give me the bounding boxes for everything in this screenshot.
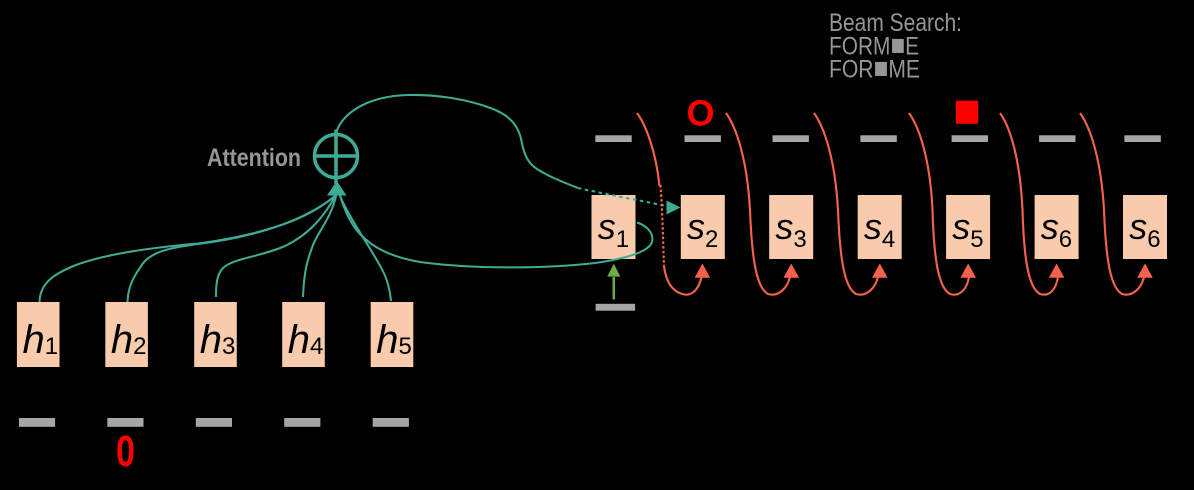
red loop 1 dotted middle — [661, 186, 665, 266]
op symbol: attention circle-plus — [315, 130, 358, 185]
dash under s1 — [596, 304, 636, 311]
svg-text:Attention: Attention — [207, 144, 301, 172]
svg-text:0: 0 — [116, 427, 135, 476]
box h3 — [194, 302, 237, 367]
arrowhead teal into s2 — [667, 201, 681, 215]
box h4 — [282, 302, 325, 367]
box h5 — [371, 302, 414, 367]
box s3 — [769, 195, 813, 259]
red loop 3 into s4 — [814, 113, 878, 295]
red loop 2 into s3 — [726, 113, 790, 295]
box s6 — [1035, 195, 1079, 259]
box s1 — [592, 195, 636, 259]
red loop 6 into s6 second — [1080, 113, 1144, 295]
red loop 1 solid bottom — [664, 266, 702, 295]
box s5 — [946, 195, 990, 259]
wire: context curve attention to s2 (solid part) — [337, 95, 579, 188]
dashes above s boxes — [595, 135, 1161, 142]
red loop 4 into s5 — [909, 113, 969, 295]
wire: fan curve attention to h3 — [216, 195, 336, 297]
wire: fan curve attention to h5 — [340, 196, 391, 301]
box s6 second — [1123, 195, 1167, 259]
wire: context curve dashed segment into s2 — [578, 188, 668, 206]
wire: fan curve attention to h4 — [303, 196, 336, 297]
wire: return curve s1 to attention — [340, 194, 653, 267]
dashes under h boxes — [19, 418, 409, 427]
box h2 — [105, 302, 148, 367]
box h1 — [17, 302, 60, 367]
red square above s5 — [956, 101, 978, 124]
box s2 — [681, 195, 725, 259]
wire: fan curve attention to h1 — [40, 194, 338, 302]
wire: fan curve attention to h2 — [128, 195, 338, 303]
svg-text:FOR■ME: FOR■ME — [829, 53, 920, 85]
red loop 5 into s6 — [1000, 113, 1058, 295]
svg-text:O: O — [686, 93, 714, 134]
box s4 — [858, 195, 902, 259]
arrowhead teal into attention bottom — [327, 181, 347, 196]
red loop 1 into s2 (solid top) — [637, 113, 660, 186]
green arrow into s1 bottom — [613, 277, 616, 300]
